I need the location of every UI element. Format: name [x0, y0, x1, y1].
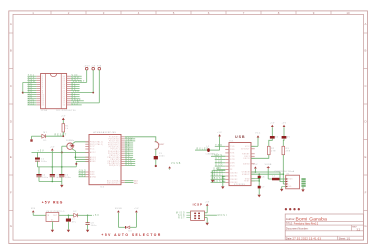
svg-text:26: 26 — [63, 84, 66, 86]
svg-text:+5V REG: +5V REG — [42, 201, 64, 205]
svg-text:C: C — [364, 84, 366, 88]
svg-text:U1: U1 — [51, 219, 54, 221]
svg-text:VCC: VCC — [255, 132, 261, 134]
svg-text:24: 24 — [63, 88, 66, 90]
svg-text:RI: RI — [230, 169, 233, 171]
svg-text:G: G — [10, 224, 13, 228]
svg-text:GND: GND — [287, 186, 292, 188]
wires crystal to IC2 — [62, 145, 67, 147]
svg-text:47u: 47u — [72, 221, 77, 223]
svg-text:11: 11 — [42, 96, 44, 98]
svg-text:VIN: VIN — [73, 101, 80, 103]
svg-text:TXD: TXD — [230, 146, 235, 148]
svg-text:A: A — [10, 22, 12, 26]
wire IC2 SDA SCL — [125, 180, 134, 182]
svg-text:100n: 100n — [56, 177, 62, 179]
svg-text:D4: D4 — [275, 137, 278, 139]
svg-text:D: D — [10, 120, 12, 124]
svg-text:3: 3 — [42, 80, 43, 82]
svg-text:+5V: +5V — [217, 132, 222, 134]
svg-text:+5V: +5V — [93, 215, 100, 217]
svg-text:PB5(SCK): PB5(SCK) — [109, 165, 120, 167]
svg-text:DIL-SOCKET30: DIL-SOCKET30 — [57, 110, 76, 112]
svg-text:PD4(XCK): PD4(XCK) — [109, 147, 120, 149]
svg-text:CBUS2: CBUS2 — [230, 179, 238, 181]
svg-text:29: 29 — [63, 78, 66, 80]
svg-text:Document Number:: Document Number: — [286, 226, 309, 230]
svg-text:+5V: +5V — [253, 164, 258, 166]
svg-text:GND: GND — [245, 178, 250, 180]
svg-text:ICSP: ICSP — [193, 203, 203, 207]
svg-text:AGND: AGND — [243, 162, 250, 165]
svg-text:USBDP: USBDP — [242, 174, 250, 176]
svg-text:L1: L1 — [273, 176, 276, 178]
svg-text:RST: RST — [178, 217, 186, 219]
svg-text:VUSB: VUSB — [115, 208, 122, 210]
svg-text:2: 2 — [42, 78, 43, 80]
diode LED L2 + wire — [195, 149, 207, 151]
svg-text:13: 13 — [42, 101, 45, 103]
svg-text:E: E — [10, 155, 12, 159]
svg-text:VCC: VCC — [245, 146, 250, 148]
svg-text:RESET: RESET — [73, 81, 86, 83]
svg-text:21: 21 — [63, 94, 66, 96]
svg-text:PD2(INT0): PD2(INT0) — [108, 143, 120, 145]
svg-text:VIN: VIN — [31, 208, 36, 210]
svg-text:TXD: TXD — [211, 155, 219, 157]
diode D1 on reset line — [32, 135, 42, 137]
wire rail to IC2 GND/VCC — [37, 166, 76, 168]
svg-text:PD3(INT1): PD3(INT1) — [108, 145, 120, 147]
svg-text:RXD: RXD — [230, 149, 235, 151]
svg-text:+5V: +5V — [73, 91, 80, 93]
svg-text:10: 10 — [42, 94, 45, 96]
diode D3 schottky — [125, 226, 126, 229]
svg-text:AVCC: AVCC — [90, 151, 97, 154]
svg-text:VCC: VCC — [90, 146, 95, 148]
wire RESET to J1 pin — [71, 81, 87, 83]
svg-text:+5V AUTO SELECTOR: +5V AUTO SELECTOR — [101, 233, 161, 237]
svg-text:PD5(T1): PD5(T1) — [111, 149, 120, 151]
svg-text:27.02.2022 15:41:03: 27.02.2022 15:41:03 — [293, 237, 322, 240]
svg-text:CBUS1: CBUS1 — [230, 176, 238, 178]
capacitor C6 C7 + ground — [258, 174, 260, 195]
svg-text:VBUS: VBUS — [287, 179, 293, 181]
svg-text:D5: D5 — [287, 137, 290, 139]
svg-text:27E: 27E — [286, 151, 291, 153]
svg-text:+5V: +5V — [282, 123, 287, 125]
ground FT232 left — [213, 169, 226, 171]
ground USB GND pin — [282, 186, 286, 188]
svg-text:100n: 100n — [91, 225, 97, 227]
wire USBDM net — [251, 171, 280, 173]
svg-text:100n: 100n — [42, 177, 48, 179]
svg-text:3V3OUT: 3V3OUT — [241, 148, 250, 150]
svg-text:GND: GND — [79, 175, 87, 177]
svg-text:Author:: Author: — [286, 217, 296, 221]
svg-text:PB0(ICP): PB0(ICP) — [109, 155, 119, 157]
svg-text:27: 27 — [63, 82, 66, 84]
capacitor C1 — [36, 152, 38, 157]
svg-text:RESET: RESET — [242, 153, 250, 155]
svg-text:+5V: +5V — [134, 208, 139, 210]
svg-text:RESET: RESET — [159, 144, 165, 146]
svg-text:PD0(RXD): PD0(RXD) — [109, 138, 120, 140]
svg-text:23: 23 — [63, 90, 66, 92]
title block box — [285, 214, 363, 240]
svg-text:1: 1 — [42, 76, 43, 78]
svg-text:30: 30 — [63, 76, 66, 78]
svg-text:USB: USB — [235, 135, 246, 139]
svg-text:RESET: RESET — [55, 135, 68, 137]
svg-text:17: 17 — [63, 103, 66, 105]
svg-text:D13: D13 — [125, 164, 132, 166]
svg-text:7: 7 — [42, 88, 43, 90]
svg-text:12: 12 — [42, 98, 45, 100]
svg-text:VCC: VCC — [90, 149, 95, 151]
svg-text:PB2(SS): PB2(SS) — [110, 159, 119, 161]
svg-text:G: G — [364, 224, 367, 228]
svg-text:10: 10 — [346, 11, 350, 15]
svg-text:D: D — [364, 120, 366, 124]
svg-text:CTS: CTS — [230, 156, 235, 158]
svg-text:PB3(MOSI): PB3(MOSI) — [108, 161, 120, 163]
svg-text:D-: D- — [287, 181, 290, 183]
svg-text:9: 9 — [42, 92, 43, 94]
svg-text:TITLE:: TITLE: — [286, 224, 293, 226]
svg-text:MOSI: MOSI — [218, 215, 228, 217]
svg-text:25: 25 — [63, 86, 66, 88]
svg-text:A: A — [365, 22, 367, 26]
svg-text:100n: 100n — [159, 156, 165, 158]
svg-text:E: E — [365, 155, 367, 159]
diode D2 on +5V rail — [59, 214, 74, 216]
svg-text:ZX-MINIUSB-2 500mA: ZX-MINIUSB-2 500mA — [274, 170, 294, 173]
svg-text:FT232RL: FT232RL — [234, 184, 245, 186]
svg-text:100u: 100u — [41, 161, 47, 163]
svg-text:C7: C7 — [261, 187, 264, 189]
svg-text:PD1(TXD): PD1(TXD) — [109, 141, 120, 143]
capacitors C2 C3 C4 — [36, 174, 41, 176]
svg-text:VUSB: VUSB — [265, 164, 272, 166]
svg-text:CBUS0: CBUS0 — [230, 172, 238, 174]
capacitor C5 DTR chain — [125, 137, 156, 142]
svg-text:GND: GND — [213, 169, 221, 171]
svg-text:Date:: Date: — [286, 236, 292, 240]
svg-text:16: 16 — [63, 105, 66, 107]
svg-text:D12: D12 — [28, 104, 35, 106]
ground FT232 GND pins — [223, 176, 226, 178]
svg-text:15: 15 — [42, 105, 45, 107]
svg-text:OSCI: OSCI — [244, 156, 250, 158]
svg-text:DSR: DSR — [230, 162, 235, 164]
svg-text:19: 19 — [63, 98, 66, 100]
wire USBDP net — [251, 173, 283, 175]
svg-text:B: B — [365, 49, 367, 53]
svg-text:A5: A5 — [134, 182, 138, 185]
svg-text:B: B — [10, 49, 12, 53]
svg-text:GND: GND — [90, 174, 95, 176]
title block dots — [285, 208, 287, 210]
svg-text:ATMEGA328P-MU: ATMEGA328P-MU — [93, 131, 116, 134]
svg-text:D13: D13 — [72, 104, 79, 106]
svg-text:DTR: DTR — [215, 158, 223, 160]
svg-text:VUSB: VUSB — [171, 163, 181, 165]
svg-text:C5: C5 — [159, 153, 162, 155]
svg-text:Sheet: 1/1: Sheet: 1/1 — [339, 237, 351, 240]
svg-text:+5V: +5V — [38, 150, 45, 152]
ground under caps — [39, 181, 62, 183]
svg-text:JP1A: JP1A — [41, 109, 48, 112]
svg-text:+5V: +5V — [50, 146, 55, 148]
wires ICSP — [186, 212, 190, 214]
svg-text:100n: 100n — [65, 177, 71, 179]
svg-text:PB6(XTAL1): PB6(XTAL1) — [90, 140, 103, 143]
svg-text:1k: 1k — [65, 128, 68, 130]
svg-text:3.2: 3.2 — [357, 228, 361, 231]
wire +5V rail — [32, 151, 90, 153]
svg-text:F: F — [10, 191, 12, 195]
svg-text:DTR: DTR — [230, 159, 235, 161]
USB shield pads + ground — [301, 178, 305, 180]
svg-text:M7: M7 — [44, 132, 48, 134]
svg-text:4: 4 — [42, 82, 43, 84]
svg-text:OSCO: OSCO — [243, 158, 250, 160]
svg-text:C: C — [10, 84, 12, 88]
svg-text:+5V: +5V — [61, 115, 66, 117]
svg-text:22: 22 — [63, 92, 66, 94]
svg-text:C6: C6 — [261, 177, 264, 179]
svg-text:+5V: +5V — [270, 123, 275, 125]
connector J1 DIP30 — [41, 74, 67, 109]
svg-text:GND: GND — [90, 172, 95, 174]
svg-text:ADC6: ADC6 — [90, 156, 96, 159]
ground ICSP — [204, 217, 207, 219]
svg-text:8: 8 — [42, 90, 43, 92]
svg-text:D+: D+ — [287, 184, 290, 186]
svg-text:TEST: TEST — [244, 181, 250, 183]
wire VIN to J1 pin — [71, 102, 99, 104]
svg-text:D3: D3 — [129, 230, 132, 232]
svg-text:Freeduino Nano Rev3.2: Freeduino Nano Rev3.2 — [294, 223, 319, 226]
svg-text:18: 18 — [63, 101, 66, 103]
svg-text:5: 5 — [42, 84, 43, 86]
svg-text:L2: L2 — [207, 146, 210, 148]
svg-text:27E: 27E — [271, 151, 276, 153]
svg-text:20: 20 — [63, 96, 66, 98]
svg-text:14: 14 — [42, 103, 45, 105]
svg-text:D2: D2 — [73, 211, 76, 213]
svg-text:+5V: +5V — [205, 201, 210, 203]
svg-text:DSR: DSR — [215, 161, 223, 163]
svg-text:PC6(RST): PC6(RST) — [109, 136, 120, 138]
svg-text:IC2: IC2 — [100, 187, 105, 189]
svg-text:TXD: TXD — [215, 145, 223, 147]
svg-text:F: F — [365, 191, 367, 195]
svg-text:RTS: RTS — [230, 153, 235, 155]
svg-text:OUT: OUT — [53, 215, 58, 217]
svg-text:IN: IN — [47, 215, 49, 217]
svg-text:6: 6 — [42, 86, 43, 88]
svg-text:CBUS3: CBUS3 — [230, 182, 238, 184]
svg-text:PB4(MISO): PB4(MISO) — [108, 163, 120, 165]
wire TXD — [211, 155, 225, 157]
svg-text:USBDM: USBDM — [242, 172, 250, 174]
capacitor C8 — [87, 215, 89, 222]
svg-text:D1: D1 — [44, 140, 47, 142]
svg-text:Bomi Garaba: Bomi Garaba — [296, 216, 328, 222]
wire +5V to J1 pin — [71, 92, 93, 94]
svg-text:DCD: DCD — [215, 165, 223, 167]
svg-text:DCD: DCD — [230, 166, 235, 168]
svg-text:28: 28 — [63, 80, 66, 82]
svg-text:16MHz: 16MHz — [66, 140, 75, 142]
capacitor C7 — [67, 215, 69, 218]
svg-text:ADC4(SDA): ADC4(SDA) — [107, 179, 120, 182]
supply VCC right of IC1 — [251, 145, 258, 147]
